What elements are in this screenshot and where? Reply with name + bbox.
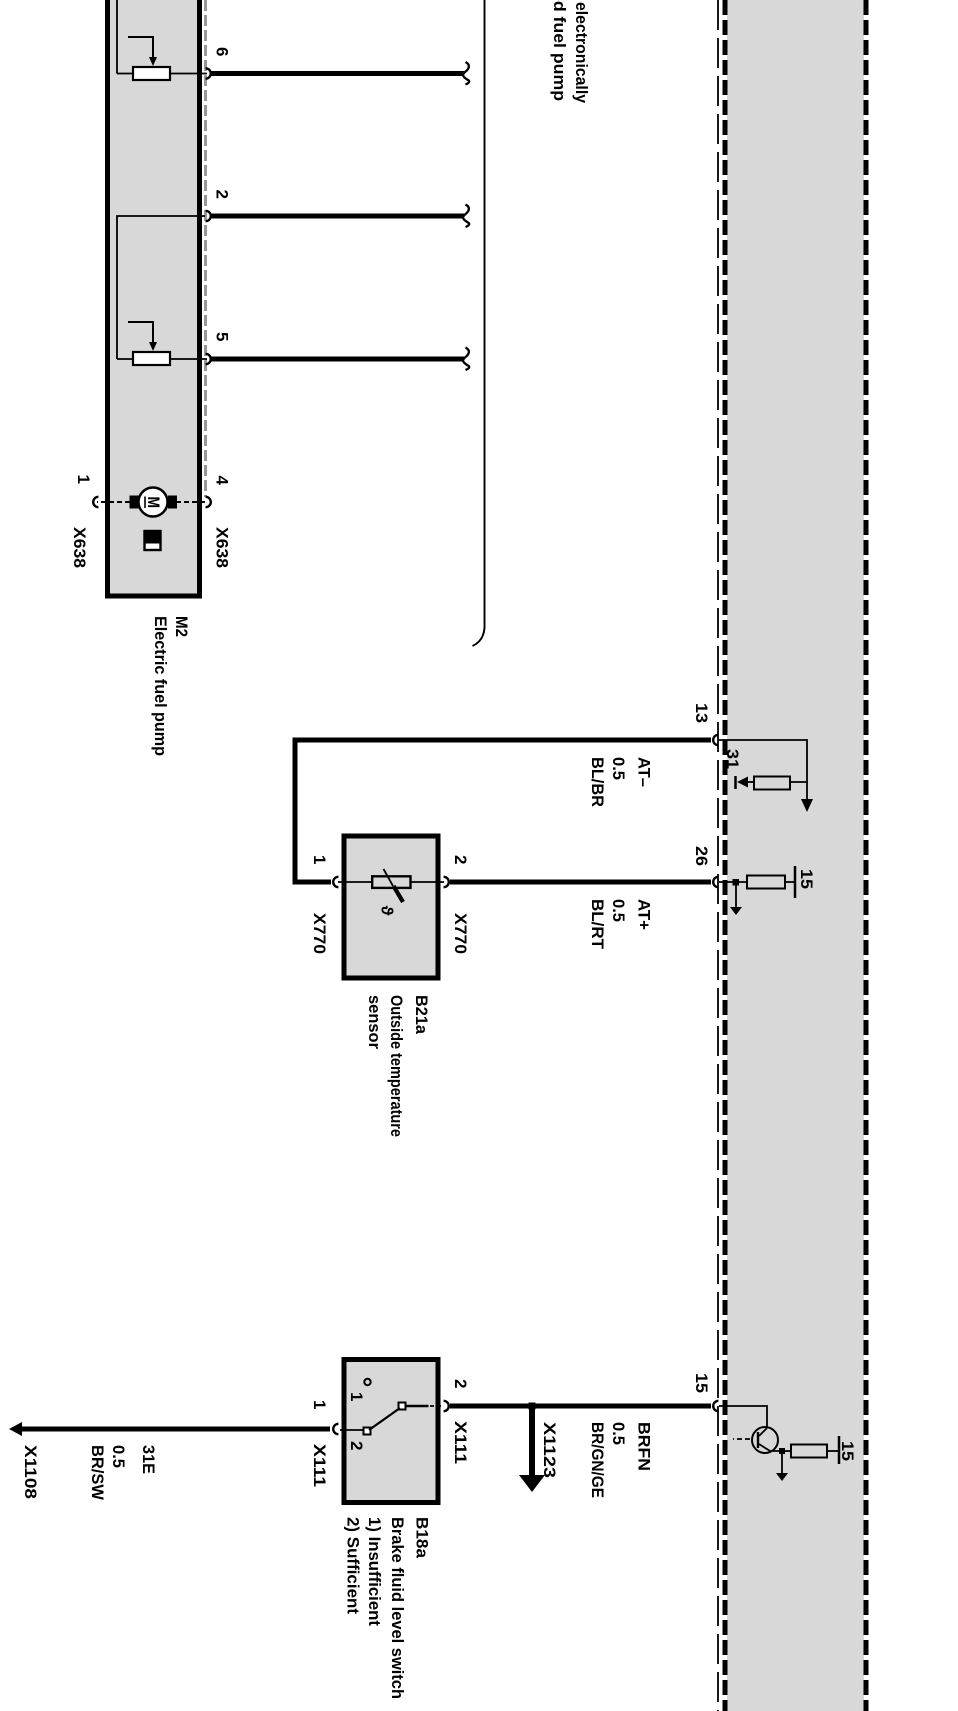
B21a pin1 socket [333, 877, 338, 887]
svg-text:X770: X770 [310, 913, 329, 954]
ECU internal at pin 26 [719, 881, 747, 883]
B18a internal lead pin1 [346, 1429, 363, 1431]
M2 inner bracket line (resistor 2 cell) [117, 216, 205, 359]
internal arrow right (pin13) [801, 799, 813, 812]
ECU pin 26 socket [713, 877, 718, 887]
switch lever [369, 1408, 400, 1430]
svg-text:1: 1 [347, 1392, 366, 1401]
terminal 31 arrow [737, 777, 748, 788]
svg-text:X770: X770 [451, 913, 470, 954]
svg-text:15: 15 [692, 1373, 711, 1393]
svg-text:2) Sufficient: 2) Sufficient [344, 1517, 363, 1614]
transistor collector [759, 1428, 767, 1436]
B18a pin1 socket [333, 1424, 338, 1434]
pin 1 socket [93, 497, 98, 507]
svg-text:0.5: 0.5 [609, 757, 628, 780]
svg-text:Outside temperature: Outside temperature [387, 995, 406, 1137]
thermistor slash [384, 869, 394, 886]
svg-text:AT–: AT– [635, 757, 654, 787]
control arrow at resistor (pin 6) [128, 37, 153, 58]
svg-text:BRFN: BRFN [635, 1422, 654, 1471]
pin 6 socket [206, 68, 211, 78]
B18a internal lead pin2 [404, 1405, 429, 1408]
transistor circle [752, 1427, 778, 1453]
B21a pin2 socket [444, 877, 449, 887]
svg-text:ed fuel pump: ed fuel pump [550, 0, 569, 101]
junction X1123 [529, 1403, 536, 1410]
svg-text:15: 15 [797, 869, 816, 889]
svg-text:X638: X638 [213, 527, 232, 568]
svg-text:BL/RT: BL/RT [588, 899, 607, 950]
svg-text:Brake fluid level switch: Brake fluid level switch [388, 1517, 407, 1699]
pin 4 socket [206, 497, 211, 507]
transistor emitter [759, 1444, 782, 1451]
svg-text:ϑ: ϑ [378, 906, 397, 916]
svg-text:6: 6 [213, 47, 232, 56]
transistor base dashed lead [733, 1438, 750, 1440]
wire B18a pin2 to ECU pin15 [450, 1404, 711, 1409]
svg-text:2: 2 [213, 190, 232, 199]
junction dot pin26 [733, 879, 740, 886]
B21a internal wire [338, 881, 444, 883]
internal resistor to terminal 15 (pin15) [791, 1445, 827, 1458]
internal arrow right (pin26) [735, 882, 737, 908]
svg-text:electronically: electronically [572, 2, 591, 104]
open contact position 1 [364, 1379, 370, 1385]
M2 connector gray dashed line [204, 0, 207, 497]
ECU pin 13 socket [713, 735, 718, 745]
svg-text:BR/SW: BR/SW [88, 1445, 107, 1501]
transistor base bar [757, 1432, 759, 1448]
component M2 box [108, 0, 200, 596]
svg-text:BR/GN/GE: BR/GN/GE [588, 1422, 607, 1498]
svg-text:B21a: B21a [412, 995, 431, 1035]
pin 5 socket [206, 354, 211, 364]
wire M2 pin 5 [210, 357, 464, 362]
switch contact pin2 side [399, 1403, 406, 1410]
resistor in M2 (pin 6) [133, 67, 170, 80]
wire B18a pin1 to X1108 [21, 1427, 330, 1432]
continuation brace [473, 0, 485, 646]
motor brush top [168, 496, 177, 509]
wire break pin 6 [463, 62, 469, 85]
wire pin6 internal [117, 73, 207, 75]
junction dot pin15 [779, 1448, 785, 1454]
control arrow at resistor (pin 5) [128, 322, 153, 343]
svg-text:2: 2 [451, 1379, 470, 1388]
component B18a box [344, 1360, 438, 1503]
motor circle M2 [139, 488, 168, 517]
internal resistor to terminal 15 (pin26) [747, 876, 785, 889]
component B21a box [344, 836, 438, 978]
terminal 15 bar (pin26) [794, 866, 797, 898]
svg-text:1) Insufficient: 1) Insufficient [365, 1517, 384, 1626]
svg-text:15: 15 [838, 1441, 857, 1461]
internal arrow right (pin15) [781, 1451, 783, 1474]
wire break pin 5 [463, 348, 469, 371]
connector strip thin dashed line [717, 0, 719, 1711]
arrow X1108 [9, 1422, 22, 1436]
wire M2 pin 2 [210, 214, 464, 219]
arrow to X1123 [529, 1406, 535, 1476]
switch contact pin1 side [364, 1428, 371, 1435]
pin 2 socket [206, 211, 211, 221]
motor brush bottom [130, 496, 139, 509]
svg-text:26: 26 [692, 846, 711, 866]
svg-text:sensor: sensor [365, 995, 384, 1049]
svg-text:31: 31 [723, 749, 742, 769]
svg-text:X1108: X1108 [21, 1445, 40, 1499]
svg-text:X111: X111 [451, 1421, 470, 1464]
svg-text:2: 2 [347, 1441, 366, 1450]
wire pin5 internal [117, 358, 207, 360]
thermistor body [372, 876, 410, 888]
control module bottom dashed border [723, 0, 728, 1711]
svg-text:X111: X111 [310, 1444, 329, 1487]
svg-text:0.5: 0.5 [109, 1445, 128, 1468]
svg-text:AT+: AT+ [635, 899, 654, 930]
ECU pin 15 socket [713, 1401, 718, 1411]
terminal 15 bar (pin15) [838, 1436, 841, 1464]
wire B21a pin2 to ECU pin26 [450, 880, 711, 885]
svg-text:5: 5 [213, 332, 232, 341]
wire break pin 2 [463, 205, 469, 228]
fuel pump symbol [145, 531, 161, 550]
svg-text:BL/BR: BL/BR [588, 757, 607, 807]
wire B21a pin1 to ECU pin13 [295, 740, 711, 882]
wire M2 pin 6 [210, 71, 464, 76]
ECU internal at pin 13 [719, 740, 807, 800]
control module band fill [727, 0, 864, 1711]
svg-text:0.5: 0.5 [609, 1422, 628, 1445]
resistor in M2 (pin 5) [133, 352, 170, 365]
M2 inner bracket line (resistor 1 cell) [116, 0, 118, 74]
motor M1 dashed leads [175, 501, 205, 503]
svg-text:13: 13 [692, 703, 711, 723]
svg-text:4: 4 [213, 476, 232, 486]
svg-text:Electric fuel pump: Electric fuel pump [151, 616, 170, 756]
svg-text:31E: 31E [139, 1445, 158, 1474]
svg-text:X638: X638 [70, 527, 89, 568]
B18a pin2 socket [444, 1401, 449, 1411]
svg-text:1: 1 [310, 1400, 329, 1409]
svg-text:B18a: B18a [413, 1517, 432, 1559]
svg-text:X1123: X1123 [540, 1422, 559, 1478]
svg-text:1: 1 [74, 475, 93, 484]
svg-text:1: 1 [310, 855, 329, 864]
svg-text:2: 2 [451, 855, 470, 864]
ECU internal at pin 15 [719, 1406, 767, 1428]
control module top dashed border [864, 0, 869, 1711]
svg-text:M: M [144, 497, 163, 509]
svg-text:M2: M2 [172, 616, 191, 637]
internal resistor to terminal 31 [790, 781, 807, 783]
svg-text:0.5: 0.5 [609, 899, 628, 922]
